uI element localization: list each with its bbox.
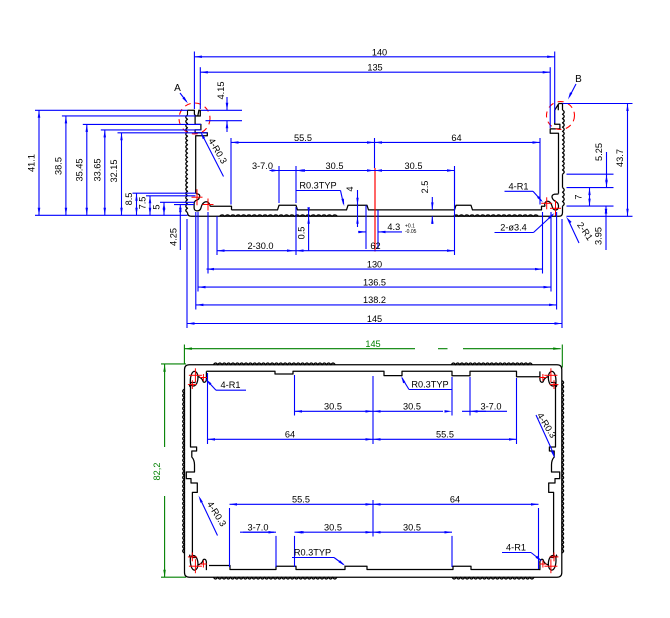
left corner screw boss — [194, 194, 210, 211]
svg-text:64: 64 — [450, 495, 460, 505]
web bottom serration band right — [454, 215, 539, 216]
plan ext 3-7 right — [469, 377, 471, 416]
svg-text:R0.3TYP: R0.3TYP — [411, 380, 448, 390]
dim 130 — [207, 268, 543, 270]
svg-text:2.5: 2.5 — [420, 181, 430, 194]
leader A — [180, 93, 187, 102]
plan leader 4-R1 TL — [207, 381, 216, 391]
leader B — [570, 84, 577, 97]
svg-text:55.5: 55.5 — [436, 430, 454, 440]
plan ext 55.5 right — [516, 378, 518, 444]
ext line right y206 — [567, 205, 614, 207]
dim 35.45 — [86, 124, 88, 215]
svg-text:4: 4 — [345, 186, 355, 191]
plan ext 55.5 left btm — [229, 508, 231, 567]
red marks plan boss BR — [539, 553, 558, 574]
center ext upper — [374, 138, 376, 168]
ext line 138.2 right — [556, 212, 558, 310]
web top ledge left — [210, 206, 231, 210]
dim row 2-30.0/62 — [217, 250, 455, 252]
ext line 30.5-62 right — [454, 171, 456, 256]
ext line 55.5 left — [230, 138, 232, 205]
plan ext 3-7 left — [451, 377, 453, 416]
plan dim row 30.5/30.5 top — [295, 410, 444, 412]
ext line 41.1 top — [35, 109, 188, 111]
ext line bump3 left — [454, 166, 456, 201]
dim row 55.5/64 — [231, 141, 540, 143]
svg-text:4-R1: 4-R1 — [221, 380, 241, 390]
plan boss bottom-right — [540, 555, 557, 570]
svg-text:145: 145 — [365, 339, 380, 349]
left wall inner tabs — [195, 124, 207, 193]
svg-text:4.25: 4.25 — [168, 228, 178, 246]
svg-text:33.65: 33.65 — [92, 159, 102, 182]
ext line y=110.3 for 4.15 — [201, 109, 242, 111]
svg-text:7: 7 — [574, 194, 584, 199]
ext line 8.5 top — [133, 192, 196, 194]
dim 43.7 — [627, 104, 629, 217]
plan boss bottom-left — [190, 555, 207, 570]
ext line y=120.7 for 4.15 — [206, 120, 243, 122]
svg-text:3-7.0: 3-7.0 — [252, 161, 273, 171]
leader 4-R0.3 section — [202, 135, 224, 177]
svg-text:5: 5 — [152, 204, 162, 209]
plan top inner line — [206, 371, 540, 377]
dim 4.3 ext lines — [365, 205, 367, 249]
dim 5 — [163, 202, 165, 215]
plan top edge serration band right — [451, 363, 532, 365]
ext line 62 left — [295, 207, 297, 255]
plan boss top-right — [540, 371, 557, 386]
ext line 145 left — [186, 219, 188, 328]
plan right inner edge — [549, 383, 560, 558]
plan ext center top — [372, 376, 374, 444]
plan ext 30.5 left — [294, 375, 296, 416]
right corner screw boss — [545, 194, 559, 210]
plan ext 30.5 left btm — [294, 536, 296, 567]
plan dim row 30.5/30.5 btm — [240, 531, 268, 533]
plan top edge serration band left — [213, 363, 335, 365]
dim 2.5 — [431, 197, 433, 210]
svg-text:145: 145 — [367, 314, 382, 324]
svg-text:R0.3TYP: R0.3TYP — [299, 181, 336, 191]
plan bottom edge serration band left — [213, 577, 337, 579]
ext line 135 right — [549, 67, 551, 128]
svg-text:8.5: 8.5 — [124, 193, 134, 206]
plan bottom edge serration band right — [452, 577, 534, 579]
svg-text:0.5: 0.5 — [297, 227, 307, 240]
plan dim row 64/55.5 — [208, 438, 517, 440]
web bottom serration band left — [220, 215, 338, 216]
ext line 140 right — [554, 52, 556, 124]
svg-text:55.5: 55.5 — [294, 133, 312, 143]
green ext 145 right — [561, 345, 563, 368]
svg-text:136.5: 136.5 — [363, 277, 386, 287]
leader R0.3TYP section — [341, 191, 344, 205]
svg-text:82,2: 82,2 — [152, 463, 162, 481]
baseline ext left — [35, 214, 188, 216]
dim 5.25 — [606, 174, 608, 187]
ext line right top 43.7 — [563, 103, 633, 105]
ext line right bottom — [567, 215, 633, 217]
svg-text:30.5: 30.5 — [324, 402, 342, 412]
ext line bump1 right — [295, 166, 297, 203]
dim 4.25 line — [179, 205, 181, 250]
plan dim row 55.5/64 btm — [230, 503, 539, 505]
ext line right y187.6 — [567, 187, 614, 189]
ext line 35.45 top — [83, 123, 201, 125]
svg-text:-0.05: -0.05 — [405, 229, 417, 235]
dim 0.5 — [308, 211, 310, 252]
red marks plan boss BL — [188, 553, 207, 574]
svg-text:2-30.0: 2-30.0 — [247, 241, 273, 251]
plan ext center btm — [372, 500, 374, 537]
plan leader R0.3TYP btm — [334, 558, 344, 565]
green dim 145 — [184, 348, 415, 350]
leader 2-R1 — [568, 220, 579, 244]
dim 38.5 — [65, 116, 67, 215]
svg-text:30.5: 30.5 — [405, 161, 423, 171]
plan leader 4-R0.3 left — [200, 499, 218, 536]
svg-text:140: 140 — [372, 47, 387, 57]
right wall outer edge (serration bands) — [562, 104, 564, 111]
plan bottom inner line — [209, 566, 540, 570]
plan ext 30.5 right btm — [451, 536, 453, 567]
ext line 2-30 left — [216, 216, 218, 255]
plan left edge serration band — [183, 389, 185, 553]
detail circle A (red dashed) — [179, 103, 210, 134]
detail circle B (red dashed) — [547, 102, 575, 130]
red marks plan boss TR — [539, 368, 558, 389]
plan leader 4-R0.3 right — [536, 415, 552, 449]
ext line 138.2 left — [195, 212, 197, 310]
ext line right y174 — [567, 173, 614, 175]
svg-text:64: 64 — [285, 430, 295, 440]
dim 7.5 — [149, 196, 151, 216]
ext line 135 left — [199, 67, 201, 109]
dim row 30.5/30.5 — [270, 170, 455, 172]
svg-text:4-R1: 4-R1 — [506, 543, 526, 553]
dim 140 — [194, 56, 554, 58]
svg-text:138.2: 138.2 — [363, 295, 386, 305]
ext line 64 right — [539, 138, 541, 205]
dim 41.1 — [38, 110, 40, 215]
ext line 130 left — [207, 212, 209, 274]
svg-text:62: 62 — [370, 241, 380, 251]
ext line 140 left — [193, 52, 195, 110]
red center marks right boss — [541, 202, 552, 204]
plan ext 64 right btm — [538, 508, 540, 569]
ext line 38.5 top — [62, 115, 196, 117]
plan left inner edge — [186, 383, 197, 558]
ext line 4.25 — [174, 204, 194, 206]
svg-text:3-7.0: 3-7.0 — [248, 523, 269, 533]
svg-text:30.5: 30.5 — [403, 402, 421, 412]
svg-text:4-R1: 4-R1 — [509, 182, 529, 192]
green dim 82.2 — [164, 364, 166, 447]
dim 3.95 — [605, 206, 607, 250]
svg-text:64: 64 — [451, 133, 461, 143]
dim 7 — [589, 188, 591, 207]
right wall top hook (detail B) — [550, 104, 562, 194]
svg-text:5.25: 5.25 — [594, 143, 604, 161]
profile left wall outer edge (serrated) — [187, 110, 189, 115]
green ext 145 left — [183, 345, 185, 364]
red center marks left boss — [192, 196, 203, 198]
dim 4.3 arrows — [358, 231, 366, 233]
web top surface with ribs — [232, 205, 546, 210]
web bottom line — [192, 215, 560, 217]
svg-text:4.3: 4.3 — [387, 222, 400, 232]
dim 145 — [187, 323, 562, 325]
svg-text:2-ø3.4: 2-ø3.4 — [500, 223, 527, 233]
leader 4-R1 section — [533, 191, 542, 201]
red centerline — [374, 168, 376, 252]
plan right edge serration band — [562, 380, 564, 553]
svg-text:R0.3TYP: R0.3TYP — [294, 548, 331, 558]
svg-text:130: 130 — [367, 259, 382, 269]
svg-text:30.5: 30.5 — [324, 523, 342, 533]
green ext 82.2 bottom — [161, 576, 186, 578]
svg-text:30.5: 30.5 — [403, 523, 421, 533]
ext line 32.15 top — [118, 132, 208, 134]
dim 4.15 line — [226, 97, 228, 110]
svg-text:135: 135 — [367, 63, 382, 73]
ext line 5 top — [160, 201, 195, 203]
dim 4 line — [357, 190, 359, 227]
svg-text:38.5: 38.5 — [53, 157, 63, 175]
ext line 33.65 top — [101, 129, 201, 131]
plan outer rectangle — [185, 365, 562, 577]
plan boss top-left — [190, 371, 207, 386]
dim 135 — [200, 71, 550, 73]
ext line bump1 left — [278, 166, 280, 203]
svg-text:35.45: 35.45 — [74, 159, 84, 182]
ext line 136.5 right — [550, 212, 552, 292]
svg-text:32.15: 32.15 — [109, 160, 119, 183]
leader 2-o3.4 — [534, 215, 554, 233]
ext line 136.5 left — [197, 212, 199, 292]
svg-text:30.5: 30.5 — [326, 161, 344, 171]
svg-text:4.15: 4.15 — [216, 82, 226, 100]
green ext 82.2 top — [161, 363, 186, 365]
svg-text:7.5: 7.5 — [138, 197, 148, 210]
ext line 7.5 top — [146, 195, 196, 197]
plan ext 3-7 left btm — [275, 536, 277, 567]
left wall top and slot (detail A) — [188, 110, 201, 124]
svg-text:41.1: 41.1 — [27, 154, 37, 172]
ext line 145 right — [561, 219, 563, 328]
svg-text:55.5: 55.5 — [292, 495, 310, 505]
svg-text:3-7.0: 3-7.0 — [481, 402, 502, 412]
red marks plan boss TL — [188, 368, 207, 389]
plan ext 64 left — [207, 373, 209, 444]
svg-text:A: A — [174, 83, 181, 94]
dim 32.15 — [121, 133, 123, 216]
dim 138.2 — [196, 304, 557, 306]
svg-text:B: B — [575, 74, 582, 85]
dim 136.5 — [198, 286, 551, 288]
svg-text:43.7: 43.7 — [615, 149, 625, 167]
dim 33.65 — [104, 130, 106, 215]
plan leader R0.3TYP top — [402, 378, 409, 390]
ext line 130 right — [542, 212, 544, 274]
plan leader 4-R1 BR — [531, 553, 541, 561]
dim 8.5 — [136, 193, 138, 215]
